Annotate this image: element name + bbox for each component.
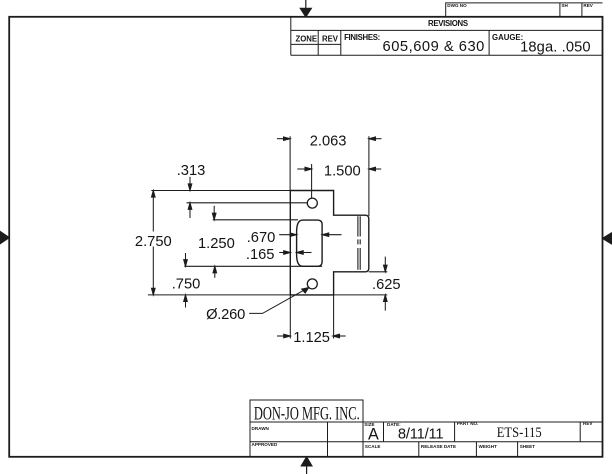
cutout top extension — [213, 219, 298, 221]
dimension lines and arrows — [152, 137, 388, 338]
dim 2.750 — [152, 191, 156, 295]
1.500 left ext (hole) — [311, 164, 313, 198]
cutout bottom extension — [184, 265, 322, 267]
svg-text:REV: REV — [583, 421, 593, 426]
svg-text:Ø.260: Ø.260 — [206, 307, 245, 323]
hole center extension — [187, 202, 308, 204]
svg-text:1.125: 1.125 — [293, 330, 330, 346]
top edge extension — [151, 190, 290, 192]
bottom centering mark — [301, 457, 312, 474]
dim 1.500 — [297, 167, 381, 171]
dim 1.250 — [212, 206, 216, 278]
top hole — [307, 198, 317, 208]
svg-text:REV: REV — [322, 34, 339, 43]
svg-text:SHEET: SHEET — [520, 444, 536, 449]
svg-text:.670: .670 — [247, 230, 276, 246]
svg-text:18ga. .050: 18ga. .050 — [520, 39, 591, 55]
extension lines — [148, 136, 387, 338]
part outline — [290, 191, 369, 295]
dimension texts — [135, 19, 591, 444]
2.063 left ext — [289, 136, 291, 190]
bend line left — [357, 216, 359, 269]
latch cutout — [297, 220, 323, 266]
svg-text:8/11/11: 8/11/11 — [398, 427, 443, 443]
svg-text:1.250: 1.250 — [198, 236, 235, 252]
svg-text:ZONE: ZONE — [295, 34, 317, 43]
svg-text:.165: .165 — [246, 247, 275, 263]
svg-text:SCALE: SCALE — [365, 444, 381, 449]
svg-text:.750: .750 — [172, 277, 201, 293]
svg-text:605,609 & 630: 605,609 & 630 — [383, 39, 485, 55]
dim .313 — [188, 177, 192, 218]
svg-text:.313: .313 — [177, 163, 206, 179]
svg-text:PART NO.: PART NO. — [457, 421, 479, 426]
svg-text:APPROVED: APPROVED — [252, 442, 278, 447]
dim .750 — [184, 253, 188, 308]
top centering mark — [300, 0, 311, 17]
dim .625 — [384, 257, 388, 311]
right centering mark — [603, 233, 612, 245]
dim 2.063 — [277, 137, 382, 141]
svg-text:REVISIONS: REVISIONS — [428, 19, 468, 28]
svg-text:1.500: 1.500 — [324, 164, 361, 180]
svg-text:DWG NO: DWG NO — [447, 3, 467, 8]
bottom edge extension — [148, 294, 387, 296]
bend line right — [359, 216, 361, 269]
svg-text:SIZE: SIZE — [364, 422, 374, 427]
dim .165 — [279, 251, 311, 255]
bottom hole — [307, 279, 317, 289]
svg-text:RELEASE DATE: RELEASE DATE — [421, 444, 456, 449]
tab bottom extension — [369, 271, 388, 273]
1.125 right ext — [333, 295, 335, 339]
svg-text:REV: REV — [583, 3, 593, 8]
svg-text:WEIGHT: WEIGHT — [479, 444, 498, 449]
svg-text:A: A — [368, 426, 379, 444]
left centering mark — [0, 231, 9, 243]
top-right dwg-no strip — [446, 3, 603, 17]
svg-text:SH: SH — [561, 3, 568, 8]
svg-text:ETS-115: ETS-115 — [497, 424, 542, 440]
svg-text:2.750: 2.750 — [135, 234, 172, 250]
dim .670 — [279, 233, 341, 237]
svg-text:.625: .625 — [372, 277, 401, 293]
svg-text:2.063: 2.063 — [310, 134, 347, 150]
revisions block lines — [291, 17, 603, 55]
svg-text:DRAWN: DRAWN — [252, 426, 270, 431]
dim 1.125 — [277, 334, 346, 338]
2.063 1.500 right ext — [368, 136, 370, 216]
svg-text:DON-JO MFG. INC.: DON-JO MFG. INC. — [254, 404, 360, 424]
leader for hole diameter — [249, 288, 308, 314]
svg-text:GAUGE:: GAUGE: — [492, 33, 523, 42]
title block lines — [250, 400, 603, 457]
svg-text:DATE:: DATE: — [387, 422, 401, 427]
1.125 left ext — [289, 295, 291, 339]
svg-text:FINISHES:: FINISHES: — [344, 33, 380, 42]
